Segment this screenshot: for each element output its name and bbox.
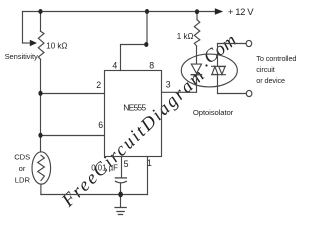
- wire pin 2: [41, 93, 105, 95]
- triac right triangle: [219, 67, 225, 75]
- wire to top terminal: [218, 43, 247, 45]
- photoresistor zigzag: [38, 155, 45, 180]
- wire pin 6: [41, 135, 105, 137]
- svg-text:LDR: LDR: [15, 175, 31, 184]
- svg-text:NE555: NE555: [123, 102, 146, 112]
- wire pin 1 stub: [147, 157, 149, 195]
- svg-text:4: 4: [112, 60, 117, 70]
- svg-text:0.01 µF: 0.01 µF: [91, 164, 118, 173]
- wire pin 3: [162, 91, 197, 93]
- junction dot pin6: [38, 133, 42, 138]
- svg-text:10 kΩ: 10 kΩ: [46, 42, 67, 51]
- wire CDS top lead: [40, 136, 42, 153]
- junction dot pin4/pin8: [144, 42, 148, 47]
- wire to bottom terminal: [218, 93, 247, 95]
- resistor R2 1k zigzag: [194, 20, 200, 46]
- wire cap bottom lead: [120, 183, 122, 195]
- svg-text:6: 6: [98, 120, 103, 130]
- ground: [115, 208, 126, 215]
- svg-text:1: 1: [147, 158, 152, 168]
- wire 1k to LED: [196, 46, 198, 64]
- wire CDS bottom lead: [40, 184, 42, 194]
- wire pot bottom to pin2 node: [40, 59, 42, 93]
- wire pot wiper arrow line: [23, 42, 31, 44]
- wire left drop to pot wiper: [22, 12, 24, 44]
- LED cathode bar: [191, 74, 201, 76]
- wire top +12V rail: [23, 11, 216, 13]
- arrowhead +12V: [215, 8, 223, 15]
- wire pin 4 stub: [120, 45, 122, 71]
- wire LED bottom lead: [196, 75, 198, 92]
- svg-text:Sensitivity: Sensitivity: [5, 52, 38, 61]
- svg-text:CDS: CDS: [14, 153, 30, 162]
- wire pin4 to pin8: [121, 44, 148, 46]
- svg-text:or device: or device: [256, 76, 285, 85]
- resistor R1 10k potentiometer zigzag: [38, 31, 44, 59]
- wire pin 8 riser: [146, 12, 148, 45]
- wire pot top lead: [40, 12, 42, 32]
- junction dot rail 1k: [195, 9, 199, 14]
- svg-text:8: 8: [149, 60, 154, 70]
- svg-text:+ 12 V: + 12 V: [228, 7, 254, 18]
- junction dot pin2: [38, 91, 42, 96]
- wire ground stub: [120, 195, 122, 208]
- optoisolator ellipse: [181, 54, 237, 87]
- capacitor C1 0.01uF top plate: [115, 177, 126, 179]
- junction dot rail-left: [38, 9, 42, 14]
- svg-text:Optoisolator: Optoisolator: [193, 108, 234, 117]
- wire diac bottom lead: [217, 75, 219, 94]
- capacitor C1 bottom plate: [115, 181, 126, 183]
- svg-text:or: or: [19, 164, 26, 173]
- svg-text:FreeCircuitDiagram: FreeCircuitDiagram: [58, 65, 210, 212]
- wire diac top lead: [217, 44, 219, 67]
- wire node to pin6 node: [40, 94, 42, 136]
- wire bottom rail: [41, 194, 148, 196]
- svg-text:2: 2: [96, 80, 101, 90]
- svg-text:.Com: .Com: [196, 31, 241, 72]
- terminal top: [246, 40, 252, 46]
- op-amp U1 NE555 box: [105, 71, 162, 157]
- wire pin 5 stub: [121, 157, 123, 178]
- wire 1k top lead: [196, 12, 198, 20]
- svg-text:1 kΩ: 1 kΩ: [177, 32, 194, 41]
- triac left triangle: [212, 67, 218, 75]
- terminal bottom: [246, 90, 252, 96]
- junction dot cap/ground: [118, 192, 123, 198]
- triac bars: [212, 66, 226, 74]
- LED triangle: [191, 64, 201, 73]
- svg-text:circuit: circuit: [256, 65, 274, 74]
- photoresistor CDS/LDR circle: [32, 152, 51, 184]
- junction dot rail pin8: [145, 9, 149, 14]
- svg-text:3: 3: [166, 79, 171, 89]
- svg-text:5: 5: [124, 159, 129, 169]
- arrowhead pot wiper: [30, 40, 37, 46]
- svg-text:To controlled: To controlled: [256, 54, 296, 63]
